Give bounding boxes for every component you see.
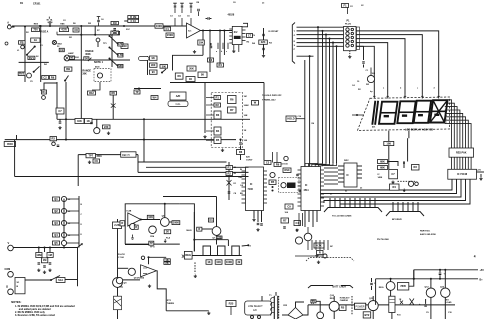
ground U5 [480, 174, 482, 177]
svg-text:C6: C6 [95, 159, 99, 163]
wire bridge links [282, 314, 288, 316]
ground below Q112 [315, 254, 318, 257]
svg-text:R1: R1 [216, 95, 220, 99]
svg-text:DRV: DRV [344, 160, 349, 162]
connector P1 outline [344, 27, 357, 51]
wire y62 lower left [19, 61, 49, 63]
svg-text:NOTE 1: NOTE 1 [94, 61, 104, 64]
transistor Q142 [149, 226, 157, 234]
svg-text:s: s [446, 101, 447, 103]
wire y167 horizontal [146, 166, 249, 168]
resistor R161 [378, 166, 388, 170]
svg-text:10K: 10K [216, 260, 221, 264]
input jack J1 mA [7, 25, 11, 29]
svg-text:R9: R9 [51, 75, 55, 79]
svg-text:2.2K: 2.2K [114, 223, 120, 227]
transistor Q121 [128, 268, 135, 275]
wire Q135 top [444, 270, 446, 288]
resistor R162 [412, 165, 420, 171]
svg-text:R9: R9 [178, 74, 182, 78]
diode CR150 [227, 180, 232, 186]
wire fuse link [316, 301, 320, 312]
feedback resistor R141 [202, 31, 204, 56]
capacitor C161 [261, 211, 263, 223]
wire Q133 bottom [390, 290, 392, 296]
wire vertical x24 [24, 27, 26, 82]
svg-text:10K: 10K [77, 119, 82, 123]
arrow wiper [162, 69, 166, 73]
resistor R151 [226, 172, 233, 176]
wire y172 horizontal [138, 171, 249, 173]
wire op-amp out [201, 30, 233, 32]
svg-text:R4: R4 [216, 129, 220, 133]
wire transformer top [275, 292, 277, 296]
svg-text:PART NO.: PART NO. [420, 230, 431, 233]
switch blade upper right [110, 36, 116, 42]
wire vertical x144 [143, 119, 145, 162]
resistor R110 [42, 90, 47, 94]
svg-text:1A: 1A [34, 38, 37, 42]
svg-text:R4: R4 [219, 63, 223, 67]
diode CR3 [88, 58, 91, 61]
transistor Q133 regulator [386, 282, 395, 291]
svg-text:s: s [446, 115, 447, 117]
resistor ladder R143 [150, 63, 158, 67]
switch S1A blade [51, 276, 60, 281]
components above U4 [264, 161, 271, 165]
switch blade lower right [110, 59, 116, 65]
op-amp U8 [128, 213, 141, 226]
capacitor C101 [42, 76, 49, 80]
svg-text:40528: 40528 [228, 14, 235, 17]
wire vertical x375 right [375, 279, 377, 305]
svg-text:A: A [7, 22, 9, 25]
svg-text:68K: 68K [380, 165, 385, 169]
divider grounds [37, 269, 40, 272]
svg-text:R6: R6 [230, 97, 234, 101]
transistor Q103 [94, 128, 100, 134]
svg-text:150K: 150K [167, 33, 173, 37]
capacitor C165 [389, 170, 398, 179]
capacitor C111 [90, 122, 93, 123]
wire vertical x117 [117, 219, 119, 319]
svg-text:1M: 1M [244, 96, 247, 98]
svg-text:+5V: +5V [480, 269, 485, 272]
resistor ladder R142 [150, 56, 158, 60]
svg-text:4.7K: 4.7K [118, 53, 124, 57]
op-amp U7 [141, 265, 157, 277]
svg-text:C1: C1 [166, 27, 170, 31]
svg-text:CONV: CONV [246, 160, 253, 162]
svg-text:1M: 1M [48, 253, 52, 257]
resistor R111 [110, 91, 117, 95]
ground below opamp [193, 50, 196, 53]
svg-text:1K: 1K [87, 119, 90, 123]
capacitor C144 [210, 46, 211, 49]
rail +5V [414, 269, 478, 271]
svg-text:R 1M: R 1M [130, 15, 136, 19]
ic U4 counter [301, 167, 321, 211]
svg-text:PN 750-2900: PN 750-2900 [377, 239, 390, 241]
capacitor C172 [439, 273, 442, 274]
svg-text:Q2: Q2 [54, 209, 58, 213]
svg-text:C 100: C 100 [118, 257, 125, 259]
feedback loop wire [125, 204, 180, 244]
svg-text:68K: 68K [380, 159, 385, 163]
wire opamp out [156, 271, 166, 311]
transistor Q120 [113, 278, 123, 288]
wire display segment fan [445, 100, 452, 148]
dashed switch [351, 302, 353, 314]
electrolytic C171 [389, 296, 395, 312]
svg-text:R: R [198, 227, 200, 231]
transistor Q101 [27, 73, 32, 78]
svg-text:10K: 10K [244, 115, 248, 117]
svg-text:HOLD: HOLD [287, 117, 294, 121]
ic U4 pins [298, 169, 302, 171]
cluster tp7 [86, 154, 96, 158]
svg-text:IC: IC [250, 183, 253, 186]
wire range rail y34.6 [57, 34, 112, 36]
svg-text:R3: R3 [216, 113, 220, 117]
wire loop right link [180, 204, 195, 252]
wire opamp U8 out [141, 219, 160, 221]
svg-text:LAMP: LAMP [68, 52, 74, 55]
resistor R150 [226, 166, 233, 170]
wire opamp top [149, 257, 167, 264]
resistor R117 [64, 67, 72, 71]
svg-text:Q5: Q5 [54, 241, 58, 245]
segment callout comb 1 [329, 198, 331, 208]
wire cal rail y82.5 [170, 82, 264, 84]
dark label box x120 [121, 152, 136, 157]
resistor R180 [120, 221, 125, 226]
svg-text:OSC: OSC [284, 168, 290, 172]
svg-text:TP: TP [135, 90, 139, 94]
wire below notebox [92, 82, 100, 90]
wire Q134 drop [430, 297, 432, 319]
wire staircase x138 [137, 155, 139, 173]
svg-text:TP7: TP7 [88, 154, 93, 158]
ground cluster [403, 189, 406, 192]
wire vertical x194 [193, 212, 195, 251]
U2 bottom exits [233, 45, 235, 50]
ic U3 ADC [246, 167, 264, 211]
svg-text:R6: R6 [112, 91, 116, 95]
switch box S1B [15, 278, 25, 294]
wire from cal rail up x264 [263, 83, 265, 161]
wire y154 horizontal [78, 154, 138, 156]
dashed osc box [279, 178, 300, 193]
wire harness bus horizontals [297, 26, 344, 28]
svg-text:IC: IC [305, 184, 308, 187]
thermistor [317, 312, 324, 319]
wire U2 top loop [242, 23, 248, 27]
svg-text:PLUG: PLUG [345, 24, 351, 26]
svg-text:R7: R7 [283, 218, 287, 222]
svg-text:BATT CHGR: BATT CHGR [333, 286, 347, 289]
wire y176 long horizontal [15, 176, 249, 178]
wire display seg down a [388, 131, 390, 142]
display leading digit 1 [372, 101, 378, 125]
svg-text:Q4: Q4 [54, 233, 58, 237]
svg-text:C3: C3 [266, 160, 270, 164]
wire spare row [295, 255, 326, 257]
svg-text:1K: 1K [207, 260, 210, 264]
power rail y305 [308, 304, 455, 306]
switch S3 blade [34, 66, 40, 72]
wire vertical x78 [77, 155, 79, 186]
svg-text:R: R [135, 225, 137, 229]
pins right U2 [242, 29, 246, 31]
range chain labels [206, 260, 212, 265]
cluster x263 resistor [259, 40, 268, 44]
svg-text:30K: 30K [82, 73, 87, 76]
resistor RV1 [28, 56, 35, 59]
svg-text:3546: 3546 [97, 155, 103, 158]
segment callout comb 2 [392, 202, 394, 212]
svg-text:7106: 7106 [248, 188, 254, 191]
svg-text:b2: b2 [345, 191, 347, 193]
svg-text:REG: REG [379, 287, 384, 289]
svg-text:1K: 1K [244, 130, 247, 132]
resistor R121 [85, 119, 93, 124]
resistor R152 [237, 150, 245, 155]
transistor Q130 [329, 301, 339, 311]
wire range ladder [111, 35, 113, 67]
svg-text:R: R [319, 250, 321, 254]
wire display backplane [408, 131, 410, 138]
svg-text:R5: R5 [216, 138, 220, 142]
transistor Q104 [52, 142, 56, 146]
transistor ladder Q1-Q4 [53, 197, 60, 201]
svg-text:R6: R6 [239, 150, 243, 154]
svg-text:W4: W4 [153, 95, 157, 99]
resistor R25 [226, 301, 236, 307]
connector P1 pins [346, 28, 349, 31]
svg-text:R1: R1 [42, 90, 46, 94]
svg-text:1K: 1K [166, 230, 169, 234]
wire elec cap bottom [391, 313, 393, 319]
wire analog bus y119 [57, 118, 250, 120]
ic U5 74C48 [448, 169, 477, 179]
divider caps [38, 263, 41, 264]
resistor R102 [60, 28, 69, 32]
pins left U2 [229, 28, 232, 30]
wire y239 top [194, 239, 228, 241]
resistor R113 [56, 108, 64, 114]
cluster x263 ground [262, 54, 265, 57]
resistor R122 [103, 125, 111, 129]
svg-text:R12: R12 [89, 91, 94, 95]
wire feedback return [173, 55, 204, 70]
wire x388 vertical [388, 146, 390, 170]
svg-text:LINE SELECT: LINE SELECT [248, 306, 263, 308]
ic U2 box [232, 26, 242, 44]
svg-text:S1A: S1A [58, 278, 63, 282]
svg-text:TP 8: TP 8 [150, 247, 155, 249]
resistor R118 [84, 57, 89, 60]
divider R10M [36, 253, 42, 258]
resistor R47K [118, 42, 123, 46]
components below U4 a [281, 218, 289, 223]
transistor Q112 [304, 233, 312, 241]
wire vertical x229 [228, 162, 230, 200]
switch blade mid right [110, 48, 116, 54]
cluster x263 cap [263, 28, 265, 54]
wire vertical x37 [40, 26, 42, 82]
resistor R131 [214, 103, 221, 107]
wire ladder bottom [63, 246, 65, 248]
wire 7805 out [409, 270, 414, 286]
svg-text:R 4.7K: R 4.7K [118, 253, 125, 256]
svg-text:Ω: Ω [6, 285, 8, 289]
capacitor C110 [59, 122, 62, 123]
svg-text:3546: 3546 [7, 142, 13, 146]
svg-text:REG: REG [185, 253, 191, 257]
range switch dashed box [211, 93, 242, 148]
capacitor C151 [228, 192, 231, 193]
spare comb bracket [306, 258, 354, 262]
svg-text:R5: R5 [271, 180, 275, 184]
wire vertical x66 [65, 82, 67, 140]
svg-text:1M: 1M [43, 258, 47, 262]
wire main input rail y26 [12, 25, 186, 27]
svg-text:CAL: CAL [175, 102, 181, 106]
transistor Q102 [42, 96, 46, 100]
svg-text:V: V [8, 241, 10, 245]
capacitor C143 [208, 17, 209, 20]
transistor Q134 [426, 288, 435, 297]
resistor R171 [164, 259, 170, 262]
resistor R163 [390, 184, 400, 190]
svg-text:TP: TP [150, 241, 154, 245]
svg-text:BT2: BT2 [364, 313, 369, 317]
svg-text:22K: 22K [261, 40, 266, 44]
U2 bottom pins [217, 43, 219, 49]
labels above P1 [342, 4, 349, 8]
resistor R105 1M [111, 31, 119, 35]
wire connector drop [356, 45, 364, 47]
wire vertical x57 [56, 82, 58, 119]
resistor R160 [378, 160, 388, 164]
wire vertical x16 [14, 140, 16, 177]
transformer T1 [273, 296, 275, 319]
components between U3 U4 a [269, 180, 276, 185]
svg-text:R3: R3 [52, 137, 56, 141]
svg-text:FB: FB [20, 40, 24, 44]
transistor Q135 [441, 288, 450, 297]
svg-text:THERM: THERM [167, 303, 174, 305]
svg-text:10K: 10K [199, 40, 204, 44]
ferrite FB1 [19, 41, 26, 45]
capacitor C141 pair [174, 5, 175, 8]
jack circle partial [116, 277, 122, 283]
capacitor C150 [363, 46, 365, 60]
regulator 7805 box [398, 283, 409, 291]
svg-text:R25: R25 [229, 301, 234, 305]
svg-text:A/D: A/D [246, 156, 250, 159]
led CR171 [410, 299, 415, 306]
wire Q135 drop [444, 297, 446, 319]
svg-text:100K: 100K [244, 105, 250, 107]
resistor R190 [314, 243, 324, 248]
wire to x77 vertical [65, 279, 78, 281]
line select box [245, 301, 272, 315]
fuse F2 [311, 300, 316, 303]
bridge rectifier [288, 308, 303, 319]
svg-text:RES PAK: RES PAK [456, 152, 467, 155]
wire vertical x205 [204, 83, 206, 134]
testpoint TP8 [408, 181, 413, 186]
components between U3 U4 b [270, 172, 275, 177]
svg-text:SHLD: SHLD [186, 230, 192, 232]
svg-text:C7: C7 [58, 109, 62, 113]
resistor R116 [69, 56, 74, 59]
svg-text:100K: 100K [156, 24, 162, 28]
svg-text:300K: 300K [85, 54, 91, 56]
svg-text:s: s [446, 112, 447, 114]
svg-text:10K: 10K [386, 141, 391, 145]
svg-text:C1: C1 [209, 218, 213, 222]
resistor R148 [198, 72, 207, 78]
svg-text:R5: R5 [341, 306, 345, 310]
svg-text:NE: NE [70, 56, 74, 60]
resistor R146 [175, 73, 183, 79]
ic U6 driver [344, 163, 357, 187]
svg-text:ASSY 085-2350: ASSY 085-2350 [420, 233, 437, 236]
svg-text:R9: R9 [276, 162, 280, 166]
wire power rail risers [333, 296, 335, 301]
wire y244 left [125, 244, 153, 246]
calibration block [170, 92, 186, 100]
svg-text:R1: R1 [228, 165, 232, 169]
resistor R101 750 [32, 28, 40, 32]
svg-text:C8 104: C8 104 [281, 163, 288, 166]
transistor Q110 [295, 237, 302, 244]
svg-text:Q1: Q1 [54, 197, 58, 201]
divider R1M [42, 258, 48, 263]
resistor R135 [228, 96, 237, 104]
resistor R149 [186, 77, 195, 82]
svg-text:C 10: C 10 [130, 19, 136, 23]
svg-text:Q8 2N3904: Q8 2N3904 [134, 276, 145, 279]
capacitor C152 [239, 143, 242, 144]
display top pins [373, 94, 375, 99]
hold box [286, 116, 296, 122]
dashed note box [94, 69, 111, 82]
range box left stubs [206, 97, 214, 99]
svg-text:s: s [446, 118, 447, 120]
label ref 3546 [4, 142, 15, 147]
svg-text:R7: R7 [230, 108, 234, 112]
wire RP1 to U5 [451, 157, 453, 169]
resistor R130 [214, 96, 221, 100]
switch blade S4 [65, 76, 68, 81]
svg-text:IC 74C48: IC 74C48 [457, 173, 468, 176]
wire cluster links [388, 162, 399, 167]
resistor ladder R144 [150, 70, 158, 74]
svg-text:20K: 20K [189, 66, 194, 70]
svg-text:IC2B: IC2B [127, 211, 132, 213]
svg-text:C7: C7 [391, 172, 395, 176]
svg-text:RANGE: RANGE [85, 50, 94, 53]
jack COM [8, 272, 14, 278]
svg-text:1M: 1M [113, 21, 117, 25]
cluster x263 cap2 [262, 48, 265, 49]
svg-text:4: 4 [474, 255, 476, 259]
wire corner top right [124, 20, 133, 22]
